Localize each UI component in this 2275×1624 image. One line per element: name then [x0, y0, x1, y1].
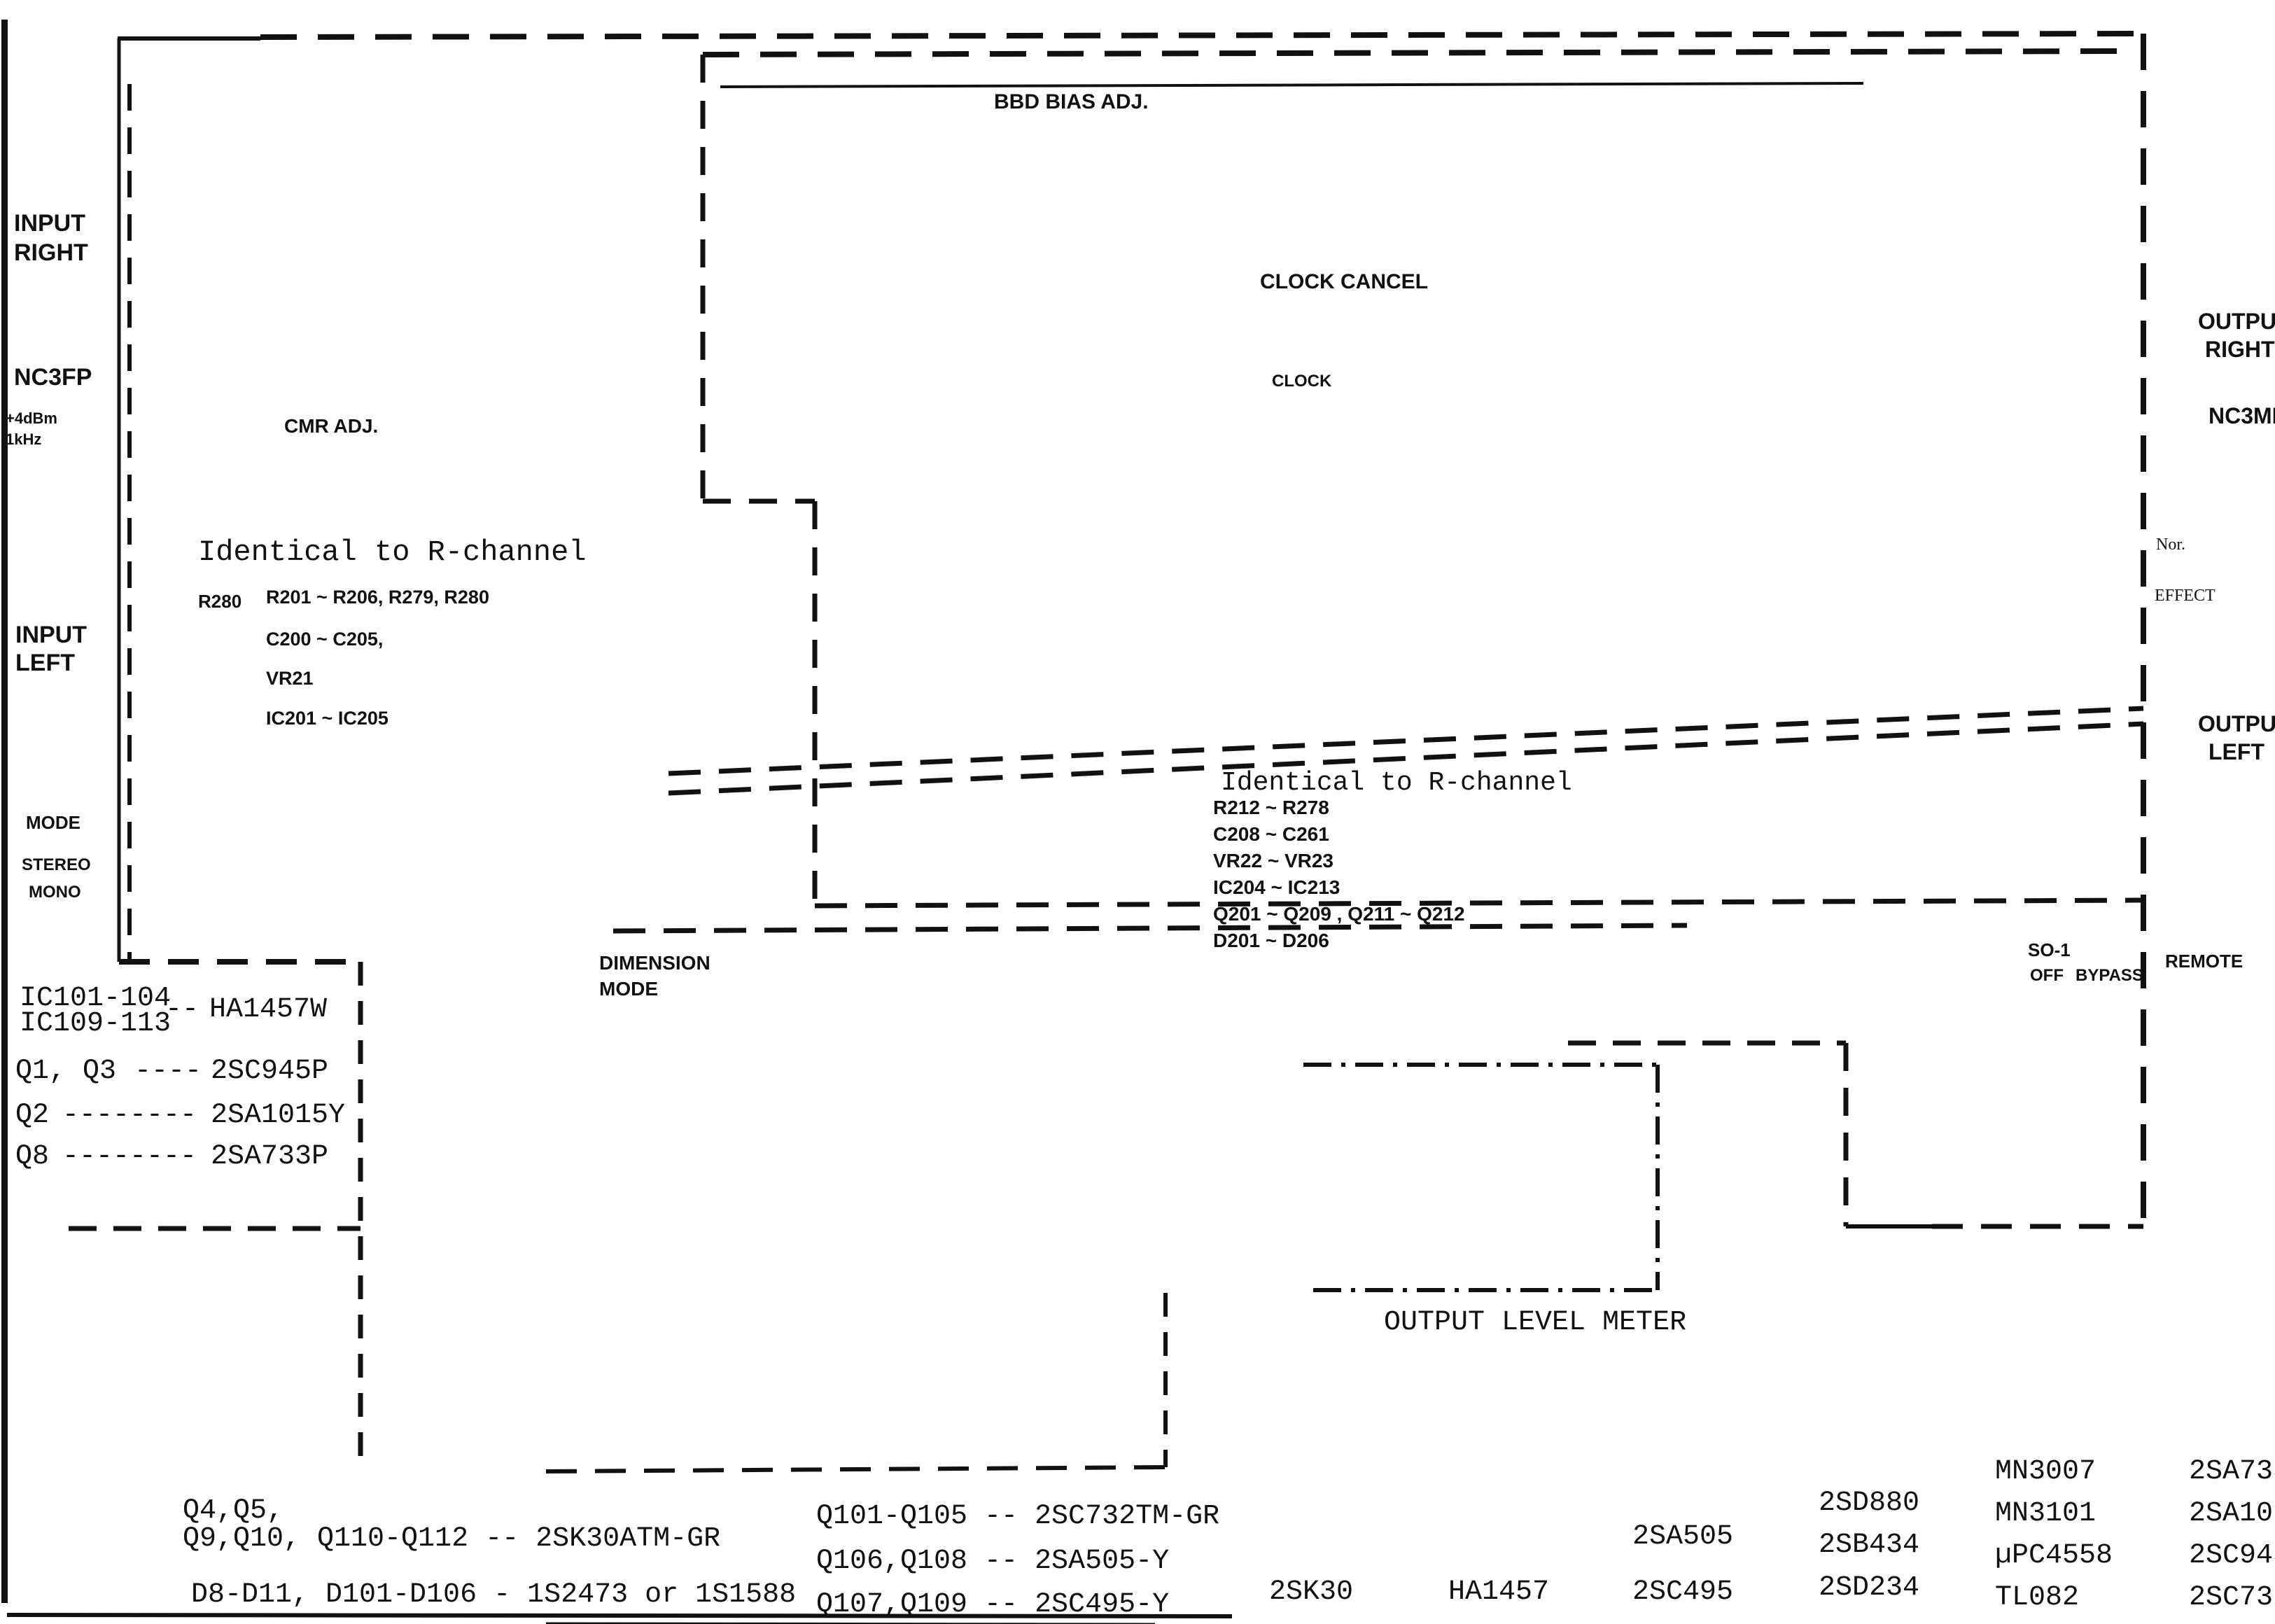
svg-text:VR22 ~ VR23: VR22 ~ VR23 — [1213, 850, 1333, 871]
svg-text:2SD234: 2SD234 — [1819, 1572, 1919, 1604]
svg-text:BBD BIAS ADJ.: BBD BIAS ADJ. — [994, 90, 1149, 113]
svg-text:--------: -------- — [62, 1100, 197, 1131]
svg-text:MN3101: MN3101 — [1995, 1498, 2096, 1529]
svg-text:STEREO: STEREO — [22, 855, 91, 874]
frame top solid segment — [118, 36, 260, 41]
svg-text:VR21: VR21 — [266, 668, 314, 689]
svg-text:Identical to R-channel: Identical to R-channel — [198, 535, 587, 569]
frame left vertical — [118, 38, 121, 962]
svg-text:R212 ~ R278: R212 ~ R278 — [1213, 797, 1329, 818]
svg-text:µPC4558: µPC4558 — [1995, 1540, 2113, 1571]
svg-text:Q1, Q3: Q1, Q3 — [15, 1056, 116, 1087]
svg-text:R280: R280 — [198, 591, 241, 612]
svg-text:2SA733P: 2SA733P — [211, 1141, 328, 1172]
frame top dashed border — [260, 34, 2143, 37]
svg-text:Q4,Q5,: Q4,Q5, — [183, 1495, 283, 1527]
svg-text:C200 ~ C205,: C200 ~ C205, — [266, 629, 383, 650]
svg-text:Q201 ~ Q209 , Q211 ~ Q212: Q201 ~ Q209 , Q211 ~ Q212 — [1213, 903, 1465, 925]
svg-text:--: -- — [165, 994, 199, 1025]
svg-text:2SA733: 2SA733 — [2189, 1456, 2275, 1487]
svg-text:LEFT: LEFT — [15, 650, 75, 676]
svg-text:HA1457W: HA1457W — [209, 994, 327, 1025]
svg-text:Q9,Q10, Q110-Q112 -- 2SK30ATM-: Q9,Q10, Q110-Q112 -- 2SK30ATM-GR — [183, 1523, 720, 1555]
svg-text:2SD880: 2SD880 — [1819, 1487, 1919, 1519]
svg-text:NC3MP: NC3MP — [2208, 403, 2275, 428]
left inner dashed vertical — [127, 84, 132, 962]
svg-text:OFF: OFF — [2030, 966, 2064, 985]
svg-text:OUTPUT LEVEL METER: OUTPUT LEVEL METER — [1384, 1307, 1686, 1338]
svg-text:----: ---- — [134, 1056, 202, 1087]
svg-text:IC109-113: IC109-113 — [20, 1008, 171, 1039]
lower dashed pair (LFO section top) — [815, 900, 2142, 906]
svg-text:INPUT: INPUT — [15, 622, 87, 648]
svg-text:LEFT: LEFT — [2208, 739, 2264, 764]
R-channel top bus wire — [720, 83, 1863, 87]
svg-text:Q107,Q109 -- 2SC495-Y: Q107,Q109 -- 2SC495-Y — [816, 1589, 1169, 1620]
svg-text:2SB434: 2SB434 — [1819, 1529, 1919, 1561]
mode-box dashed horizontal — [119, 959, 360, 965]
svg-text:DIMENSION: DIMENSION — [599, 952, 710, 974]
svg-text:2SA1015Y: 2SA1015Y — [211, 1100, 345, 1131]
svg-text:SO-1: SO-1 — [2028, 939, 2071, 960]
svg-text:INPUT: INPUT — [14, 210, 85, 237]
left page edge bar — [1, 20, 8, 1603]
svg-text:C208 ~ C261: C208 ~ C261 — [1213, 823, 1329, 845]
svg-text:2SA505: 2SA505 — [1632, 1521, 1733, 1553]
frame right dashed border — [2141, 34, 2146, 1225]
svg-text:Q8: Q8 — [15, 1141, 49, 1172]
svg-text:D201 ~ D206: D201 ~ D206 — [1213, 930, 1329, 951]
svg-text:2SC495: 2SC495 — [1632, 1576, 1733, 1608]
R-channel box top dashed — [703, 51, 2120, 55]
svg-text:D8-D11, D101-D106 - 1S2473 or: D8-D11, D101-D106 - 1S2473 or 1S1588 — [191, 1579, 796, 1611]
svg-text:OUTPUT: OUTPUT — [2198, 309, 2275, 334]
svg-text:OUTPUT: OUTPUT — [2198, 711, 2275, 736]
svg-text:CLOCK CANCEL: CLOCK CANCEL — [1260, 270, 1428, 293]
svg-text:1kHz: 1kHz — [6, 430, 41, 448]
svg-text:BYPASS: BYPASS — [2075, 966, 2143, 985]
R-channel box jog dashed — [703, 499, 815, 504]
svg-text:2SC945P: 2SC945P — [211, 1056, 328, 1087]
svg-text:CLOCK: CLOCK — [1272, 372, 1332, 391]
remote block bottom — [1846, 1224, 1932, 1228]
svg-text:Q2: Q2 — [15, 1100, 49, 1131]
svg-text:EFFECT: EFFECT — [2155, 587, 2215, 605]
svg-text:MODE: MODE — [26, 812, 80, 833]
svg-text:2SA1015: 2SA1015 — [2189, 1498, 2275, 1529]
svg-text:Nor.: Nor. — [2156, 535, 2185, 554]
svg-text:Q101-Q105 -- 2SC732TM-GR: Q101-Q105 -- 2SC732TM-GR — [816, 1501, 1219, 1532]
svg-text:2SC945: 2SC945 — [2189, 1540, 2275, 1571]
lower border dashed — [546, 1467, 1165, 1471]
svg-text:TL082: TL082 — [1995, 1582, 2079, 1613]
svg-text:IC201 ~ IC205: IC201 ~ IC205 — [266, 708, 388, 729]
terminal strip dashed vertical — [358, 962, 363, 1470]
svg-text:2SK30: 2SK30 — [1269, 1576, 1353, 1608]
svg-text:R201 ~ R206, R279, R280: R201 ~ R206, R279, R280 — [266, 587, 489, 608]
R-channel box left dashed — [701, 55, 706, 501]
svg-text:RIGHT: RIGHT — [2205, 337, 2275, 362]
svg-text:NC3FP: NC3FP — [14, 364, 92, 391]
R-channel box bottom dashed pair — [668, 708, 2143, 773]
power block top dashed — [69, 1226, 360, 1231]
remote block left dashed — [1844, 1043, 1849, 1226]
frame bottom line — [7, 1615, 1232, 1616]
svg-text:IC204 ~ IC213: IC204 ~ IC213 — [1213, 876, 1340, 898]
svg-text:REMOTE: REMOTE — [2165, 951, 2243, 972]
svg-text:Identical to R-channel: Identical to R-channel — [1221, 768, 1572, 798]
svg-text:RIGHT: RIGHT — [14, 239, 88, 266]
svg-text:MODE: MODE — [599, 978, 658, 1000]
svg-text:HA1457: HA1457 — [1448, 1576, 1549, 1608]
svg-text:2SC732: 2SC732 — [2189, 1582, 2275, 1613]
svg-text:+4dBm: +4dBm — [6, 409, 57, 427]
meter box dash-dot border — [1303, 1063, 1658, 1067]
svg-text:--------: -------- — [62, 1141, 197, 1172]
remote block dashed top — [1568, 1041, 1846, 1046]
svg-text:CMR ADJ.: CMR ADJ. — [284, 415, 378, 437]
svg-text:Q106,Q108 -- 2SA505-Y: Q106,Q108 -- 2SA505-Y — [816, 1546, 1169, 1577]
svg-text:MONO: MONO — [29, 883, 81, 902]
svg-text:MN3007: MN3007 — [1995, 1456, 2096, 1487]
